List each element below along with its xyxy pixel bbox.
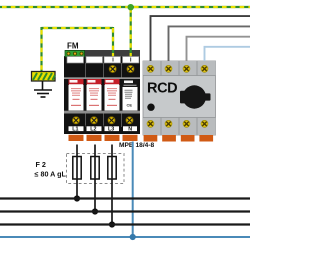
fuse F2-2 (91, 157, 99, 180)
screw terminals bottom row (72, 117, 133, 124)
node L1 junction (74, 195, 80, 201)
terminal label L3 (104, 126, 120, 133)
wire N drop from arrester to N bus (blue) (132, 142, 134, 238)
svg-text:L3: L3 (108, 127, 114, 133)
wire PE drop to ground bar (40, 27, 42, 72)
svg-text:L1: L1 (72, 127, 78, 133)
terminal label L2 (86, 126, 102, 133)
terminal label L1 (68, 126, 84, 133)
arrester module 1 label sticker (VAL-MS) (69, 79, 84, 111)
arrester module 2 label sticker (VAL-MS) (87, 79, 102, 111)
wire L1 drop from arrester to bus (76, 145, 78, 199)
surge arrester MPB 18/4-8 body (64, 50, 140, 134)
node PE junction dot (128, 4, 134, 10)
arrester top terminal label boxes (67, 57, 139, 64)
wire PE drop over arrester top (module 3) (112, 50, 114, 58)
arrester module 4 label sticker (N-PE spark gap) (123, 79, 138, 111)
fuse F2-3 (108, 157, 116, 180)
svg-text:F 2: F 2 (36, 160, 46, 169)
svg-text:≤ 80 A gL: ≤ 80 A gL (35, 169, 67, 178)
wire PE bonding run (horizontal at y=28 from ground bar to arrester PE) (42, 27, 114, 29)
svg-text:L2: L2 (90, 127, 96, 133)
RCD bottom terminal row (143, 118, 216, 136)
bus L3 (0, 223, 250, 225)
RCD terminal dividers (143, 61, 216, 135)
wire PE drop into arrester module 3 (112, 27, 114, 58)
svg-text:FM: FM (67, 42, 79, 51)
node L3 junction (109, 221, 115, 227)
arrester top dark strip (85, 50, 140, 57)
wire L3 drop from arrester to bus (111, 145, 113, 225)
wire PE drop over arrester top (module 4) (130, 50, 132, 58)
wire N supply (light blue) (205, 47, 251, 61)
equipotential bonding bar (32, 72, 56, 82)
node L2 junction (92, 208, 98, 214)
bus N (blue) (0, 236, 250, 238)
RCD rotary knob (180, 85, 211, 108)
RCD DIN-rail feet (orange) (144, 135, 213, 142)
wire PE main equipotential line (top, green/yellow dashed) (0, 6, 250, 8)
bus L1 (0, 197, 250, 199)
wire L2 supply (169, 26, 251, 61)
arrester module 3 label sticker (VAL-MS) (105, 79, 120, 111)
RCD body (143, 61, 216, 135)
fuse F2-1 (73, 157, 81, 180)
RCD test button (147, 104, 154, 111)
terminal label N (123, 126, 138, 133)
bus L2 (0, 210, 250, 212)
RCD bottom terminal screws (yellow X on black) (147, 120, 208, 127)
wire L2 drop from arrester to bus (94, 145, 96, 212)
fuse group F2 dashed outline (67, 154, 125, 184)
wire PE drop to N-PE arrester (vertical dashed) (130, 7, 132, 58)
svg-text:MPB 18/4-8: MPB 18/4-8 (119, 142, 155, 149)
ground symbol (34, 81, 52, 97)
screw terminal top module 4 (127, 65, 134, 72)
seam between black band and stickers (64, 77, 140, 79)
pin arrow marks in boxes 3 and 4 (113, 58, 131, 62)
module divider lines (86, 63, 122, 127)
seam under stickers (64, 111, 140, 114)
RCD top terminal row (143, 61, 216, 76)
node N junction (blue) (130, 234, 136, 240)
wire L3 supply (187, 37, 251, 61)
RCD top terminal screws (yellow X on black) (147, 65, 208, 72)
screw terminal top module 3 (109, 65, 116, 72)
svg-text:N: N (128, 127, 132, 133)
arrester DIN-rail feet (orange) (69, 135, 138, 141)
wire L1 supply (from right edge into RCD) (151, 16, 251, 61)
svg-text:RCD: RCD (147, 81, 177, 97)
FM terminal strip (green, 3 poles) (65, 51, 85, 57)
svg-text:CE: CE (127, 103, 133, 108)
